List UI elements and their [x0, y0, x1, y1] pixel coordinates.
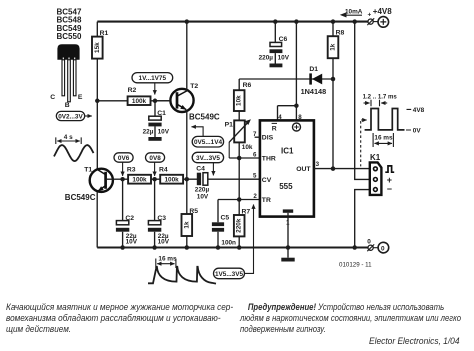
svg-text:R2: R2 [128, 87, 137, 94]
svg-text:10mA: 10mA [345, 8, 363, 15]
svg-text:0V5...1V4: 0V5...1V4 [194, 139, 223, 146]
wire: R6 / D1 horizontal [239, 77, 335, 82]
svg-text:C6: C6 [279, 36, 288, 43]
svg-text:5: 5 [253, 173, 257, 180]
svg-text:3: 3 [316, 161, 320, 168]
resistor R4 100k [159, 167, 183, 184]
svg-text:R6: R6 [243, 82, 252, 89]
svg-text:4V8: 4V8 [413, 107, 425, 114]
wire: T2 collector to +4V8 rail [186, 22, 188, 91]
node: R1 / R2 / T1 collector [95, 99, 100, 104]
annotation: 4 s sine wave [54, 134, 94, 161]
resistor R6 10k [234, 79, 252, 120]
resistor R3 100k [113, 167, 151, 184]
svg-text:T1: T1 [84, 166, 92, 173]
svg-text:16 ms: 16 ms [158, 256, 177, 263]
svg-text:DIS: DIS [262, 135, 274, 142]
svg-text:1: 1 [286, 220, 290, 227]
capacitor C6 220u 10V [259, 22, 290, 64]
wire: THR to TR vertical [238, 158, 240, 200]
svg-text:22µ: 22µ [143, 128, 154, 135]
resistor R7 220k [234, 200, 251, 248]
measured node oval 1V5...3V5 [214, 205, 254, 279]
wire: +4V8 rail to pins 4/8 [278, 22, 299, 108]
svg-text:D1: D1 [309, 66, 318, 73]
annotation: output pulse waveform [363, 93, 425, 147]
svg-text:1k: 1k [183, 221, 190, 229]
svg-text:220µ: 220µ [259, 55, 274, 62]
capacitor C1 22u 10V [143, 101, 170, 137]
svg-text:220µ: 220µ [195, 187, 210, 194]
svg-text:K1: K1 [370, 153, 381, 162]
svg-text:3V...3V5: 3V...3V5 [196, 155, 220, 162]
ground (below rail at pin1) [281, 258, 294, 262]
measured node oval 0V2...3V [56, 111, 92, 120]
svg-text:16 ms: 16 ms [374, 134, 393, 141]
capacitor C3 22u 10V [148, 179, 170, 247]
transistor T2 BC549C [155, 83, 220, 122]
terminal: +4V8 battery [367, 7, 392, 27]
svg-text:100k: 100k [164, 177, 179, 184]
svg-text:10k: 10k [236, 95, 243, 106]
svg-text:1N4148: 1N4148 [301, 87, 327, 96]
TO-92 package drawing [50, 44, 83, 109]
svg-text:220k: 220k [236, 218, 243, 233]
svg-text:1V5...3V5: 1V5...3V5 [215, 271, 244, 278]
wire: T1 emitter to ground rail [96, 192, 98, 248]
svg-text:BC549C: BC549C [189, 113, 220, 122]
diode D1 1N4148 [301, 66, 327, 96]
svg-text:10V: 10V [278, 55, 290, 62]
svg-text:C5: C5 [221, 215, 230, 222]
pin 4 stub [278, 106, 283, 121]
capacitor C2 22u 10V [116, 179, 138, 247]
wire: K1 plus pin to +4V8 rail [355, 22, 370, 180]
wire: base line T1/R3/R4/C4/CV pin5 [120, 177, 260, 182]
svg-text:B: B [65, 102, 70, 109]
annotation: dashed leader from K1 signal to waveform [361, 120, 367, 166]
svg-text:0V8: 0V8 [149, 155, 161, 162]
credit line [369, 336, 460, 347]
svg-text:T2: T2 [190, 83, 198, 90]
op-amp/timer IC1 555 [253, 120, 320, 216]
svg-text:C1: C1 [157, 110, 166, 117]
resistor R2 100k [97, 87, 171, 105]
svg-text:100n: 100n [221, 240, 236, 247]
svg-text:0V: 0V [413, 128, 422, 135]
svg-text:C4: C4 [196, 165, 205, 172]
transistor type list BC547 BC548 BC549 BC550 [57, 8, 82, 42]
svg-text:BC550: BC550 [57, 32, 82, 41]
capacitor C4 220u 10V [195, 165, 210, 200]
svg-text:OUT: OUT [296, 166, 311, 173]
potentiometer P1 10k [225, 119, 253, 158]
svg-text:4 s: 4 s [64, 134, 73, 141]
node: R2 / C1 / T2 base [153, 99, 158, 104]
terminal: 0V [367, 239, 389, 253]
svg-text:10V: 10V [197, 194, 209, 201]
svg-text:2: 2 [253, 193, 257, 200]
pin 1 wire to ground rail [286, 217, 290, 258]
svg-text:10V: 10V [158, 238, 170, 245]
wire: OUT pin3 to K1 [314, 166, 370, 171]
svg-text:10k: 10k [242, 144, 253, 151]
svg-text:R: R [272, 126, 277, 133]
transistor T1 BC549C [65, 166, 113, 202]
resistor R5 1k [182, 179, 199, 247]
svg-text:C3: C3 [157, 215, 166, 222]
measured node oval 0V8 [146, 153, 165, 176]
wire: pin6 THR line [229, 156, 260, 161]
svg-text:100k: 100k [132, 98, 147, 105]
svg-text:555: 555 [279, 182, 293, 191]
svg-text:100k: 100k [132, 177, 147, 184]
svg-text:R1: R1 [100, 30, 109, 37]
svg-text:TR: TR [262, 197, 271, 204]
svg-text:+: + [368, 11, 372, 18]
svg-text:R5: R5 [189, 208, 198, 215]
svg-text:BC549C: BC549C [65, 193, 96, 202]
svg-text:R3: R3 [127, 167, 136, 174]
measured node oval 0V6 [114, 153, 133, 176]
svg-text:1k: 1k [330, 43, 337, 51]
ground (C1) [148, 137, 161, 141]
pin 8 stub [296, 106, 302, 121]
svg-text:010129 - 11: 010129 - 11 [339, 262, 372, 269]
svg-text:C2: C2 [125, 215, 134, 222]
svg-text:−: − [387, 184, 392, 194]
svg-text:1V...1V75: 1V...1V75 [139, 75, 167, 82]
svg-text:0V6: 0V6 [118, 155, 130, 162]
svg-text:R4: R4 [159, 167, 168, 174]
annotation: 16 ms sawtooth [148, 256, 216, 284]
svg-text:E: E [78, 94, 83, 101]
wire: T2 emitter to R4/C4 node [186, 110, 188, 179]
svg-text:+4V8: +4V8 [373, 7, 392, 16]
svg-text:R7: R7 [242, 208, 251, 215]
svg-text:IC1: IC1 [281, 147, 294, 156]
capacitor C5 100n [212, 200, 236, 248]
svg-text:P1: P1 [225, 122, 234, 129]
measured node oval 3V...3V5 [192, 152, 223, 175]
connector K1 [370, 153, 394, 195]
svg-text:CV: CV [262, 177, 272, 184]
caption text left [6, 302, 233, 336]
ground (C6) [270, 64, 283, 68]
svg-text:0: 0 [381, 245, 385, 252]
annotation: 10mA arrow [340, 8, 363, 17]
svg-text:15k: 15k [94, 42, 101, 53]
ground (inside IC1 pin1) [283, 209, 293, 216]
resistor R1 15k [92, 22, 109, 170]
wire: pin2 TR line [218, 197, 260, 202]
warning text right [240, 302, 461, 336]
svg-text:0V2...3V: 0V2...3V [58, 113, 83, 120]
wire: K1 minus pin to 0V rail [355, 190, 370, 248]
wire: +4V8 supply rail [97, 19, 368, 24]
measured node oval 1V...1V75 [132, 73, 173, 95]
svg-text:1.2 .. 1.7 ms: 1.2 .. 1.7 ms [363, 93, 398, 100]
wire: 0V ground rail [97, 245, 368, 250]
svg-text:R8: R8 [336, 30, 345, 37]
svg-text:6: 6 [253, 151, 257, 158]
svg-text:C: C [50, 94, 55, 101]
svg-text:THR: THR [262, 156, 276, 163]
resistor R8 1k [328, 22, 345, 169]
svg-text:10V: 10V [158, 128, 170, 135]
measured node oval 0V5...1V4 [192, 127, 224, 147]
svg-text:10V: 10V [126, 238, 138, 245]
